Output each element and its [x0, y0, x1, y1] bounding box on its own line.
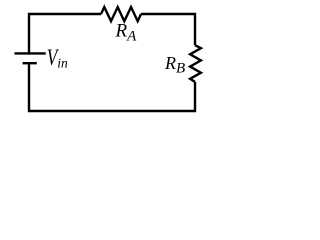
svg-text:Vin: Vin [47, 45, 68, 71]
wire: R_B down, along bottom rail, up to battery negative terminal [29, 63, 195, 111]
svg-text:RB: RB [164, 53, 185, 77]
resistor R_A (zigzag) [101, 7, 141, 21]
svg-text:RA: RA [115, 21, 138, 45]
wire: battery positive terminal up and along top rail to R_A [29, 14, 101, 53]
battery V_in bottom (negative) plate [23, 62, 37, 64]
wire: R_A to top-right corner down to R_B [141, 14, 195, 45]
resistor R_B (vertical zigzag) [190, 45, 201, 82]
battery V_in top (positive) plate [14, 52, 45, 54]
